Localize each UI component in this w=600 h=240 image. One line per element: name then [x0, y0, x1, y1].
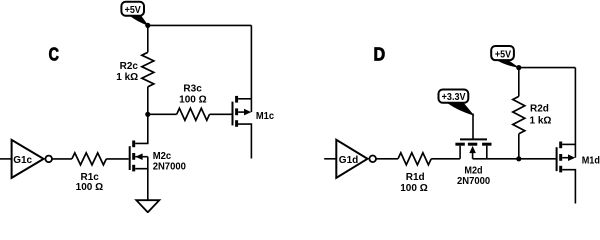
svg-text:2N7000: 2N7000: [457, 176, 491, 187]
resistor R1d: [398, 153, 431, 165]
wire +3.3V to M2d gate: [472, 114, 474, 140]
value label R2d 1 kOhm: [530, 103, 552, 126]
resistor R1c: [72, 153, 106, 165]
wire R2d bottom to node B: [518, 134, 520, 159]
resistor R3c: [177, 108, 210, 120]
svg-text:+5V: +5V: [125, 5, 141, 16]
svg-text:1 kΩ: 1 kΩ: [116, 72, 138, 83]
svg-text:R3c: R3c: [183, 84, 202, 95]
svg-text:100 Ω: 100 Ω: [400, 183, 427, 194]
wire R3c to M1c gate: [210, 113, 232, 115]
svg-text:M2d: M2d: [464, 166, 482, 177]
svg-text:D: D: [374, 45, 386, 65]
node B (R2d / M2d source / M1d gate junction): [516, 156, 521, 161]
label M1d: [582, 155, 600, 166]
svg-text:2N7000: 2N7000: [153, 161, 187, 172]
wire G1c output to R1c: [52, 158, 72, 160]
wire R1d to M2d drain: [431, 158, 460, 160]
wire +5V junction D down to R2d top: [518, 68, 520, 97]
supply label +5V (D): [491, 46, 519, 68]
node +5V rail D (junction dot): [516, 65, 521, 70]
value label R1c 100 Ohm: [76, 172, 103, 193]
svg-text:+3.3V: +3.3V: [442, 92, 466, 103]
svg-text:+5V: +5V: [495, 49, 511, 60]
wire M2c source to ground: [147, 169, 149, 201]
svg-text:100 Ω: 100 Ω: [179, 95, 206, 106]
svg-text:1 kΩ: 1 kΩ: [530, 115, 552, 126]
label D: [374, 45, 386, 65]
svg-text:G1d: G1d: [339, 155, 358, 166]
supply label +5V (C): [121, 2, 148, 26]
svg-text:M1c: M1c: [256, 111, 275, 122]
transistor M1c (PMOS style, body tied to supply rail): [233, 25, 252, 158]
wire G1d output to R1d: [376, 158, 398, 160]
wire +5V rail C to M1c drain corner: [148, 24, 252, 26]
resistor R2d: [513, 96, 525, 133]
wire node A to R3c: [148, 113, 177, 115]
label C: [49, 44, 59, 64]
transistor M1d (PMOS style, body tied to supply rail): [557, 68, 576, 204]
wire M2d source to node B and M1d gate: [473, 158, 556, 160]
node A (R2c / R3c / M2c drain junction): [145, 112, 150, 117]
value label R2c 1 kOhm: [116, 61, 138, 83]
transistor M2c (NMOS 2N7000): [130, 141, 148, 172]
supply label +3.3V: [439, 90, 475, 116]
wire R1c to M2c gate: [106, 158, 128, 160]
label M1c: [256, 111, 275, 122]
svg-text:100 Ω: 100 Ω: [76, 182, 103, 193]
wire +5V rail D to M1d drain corner: [519, 67, 576, 69]
svg-text:M2c: M2c: [153, 151, 172, 162]
svg-text:R2d: R2d: [530, 103, 549, 114]
svg-text:G1c: G1c: [13, 155, 32, 166]
inverter G1c: [0, 140, 52, 178]
svg-text:R1d: R1d: [406, 172, 425, 183]
label M2c 2N7000: [153, 151, 187, 173]
transistor M2d (NMOS 2N7000 pass transistor, gate up): [455, 139, 491, 158]
inverter G1d: [324, 140, 376, 178]
wire R2c bottom to node A and M2c drain: [135, 87, 148, 144]
wire +5V junction down to R2c top: [147, 25, 149, 52]
resistor R2c: [142, 52, 154, 87]
ground: [136, 200, 159, 212]
value label R3c 100 Ohm: [179, 84, 206, 106]
node +5V rail C (junction dot): [145, 23, 150, 28]
svg-text:C: C: [49, 44, 59, 64]
svg-text:R2c: R2c: [120, 61, 139, 72]
label M2d 2N7000: [457, 166, 491, 188]
value label R1d 100 Ohm: [400, 172, 427, 194]
svg-text:M1d: M1d: [582, 155, 600, 166]
